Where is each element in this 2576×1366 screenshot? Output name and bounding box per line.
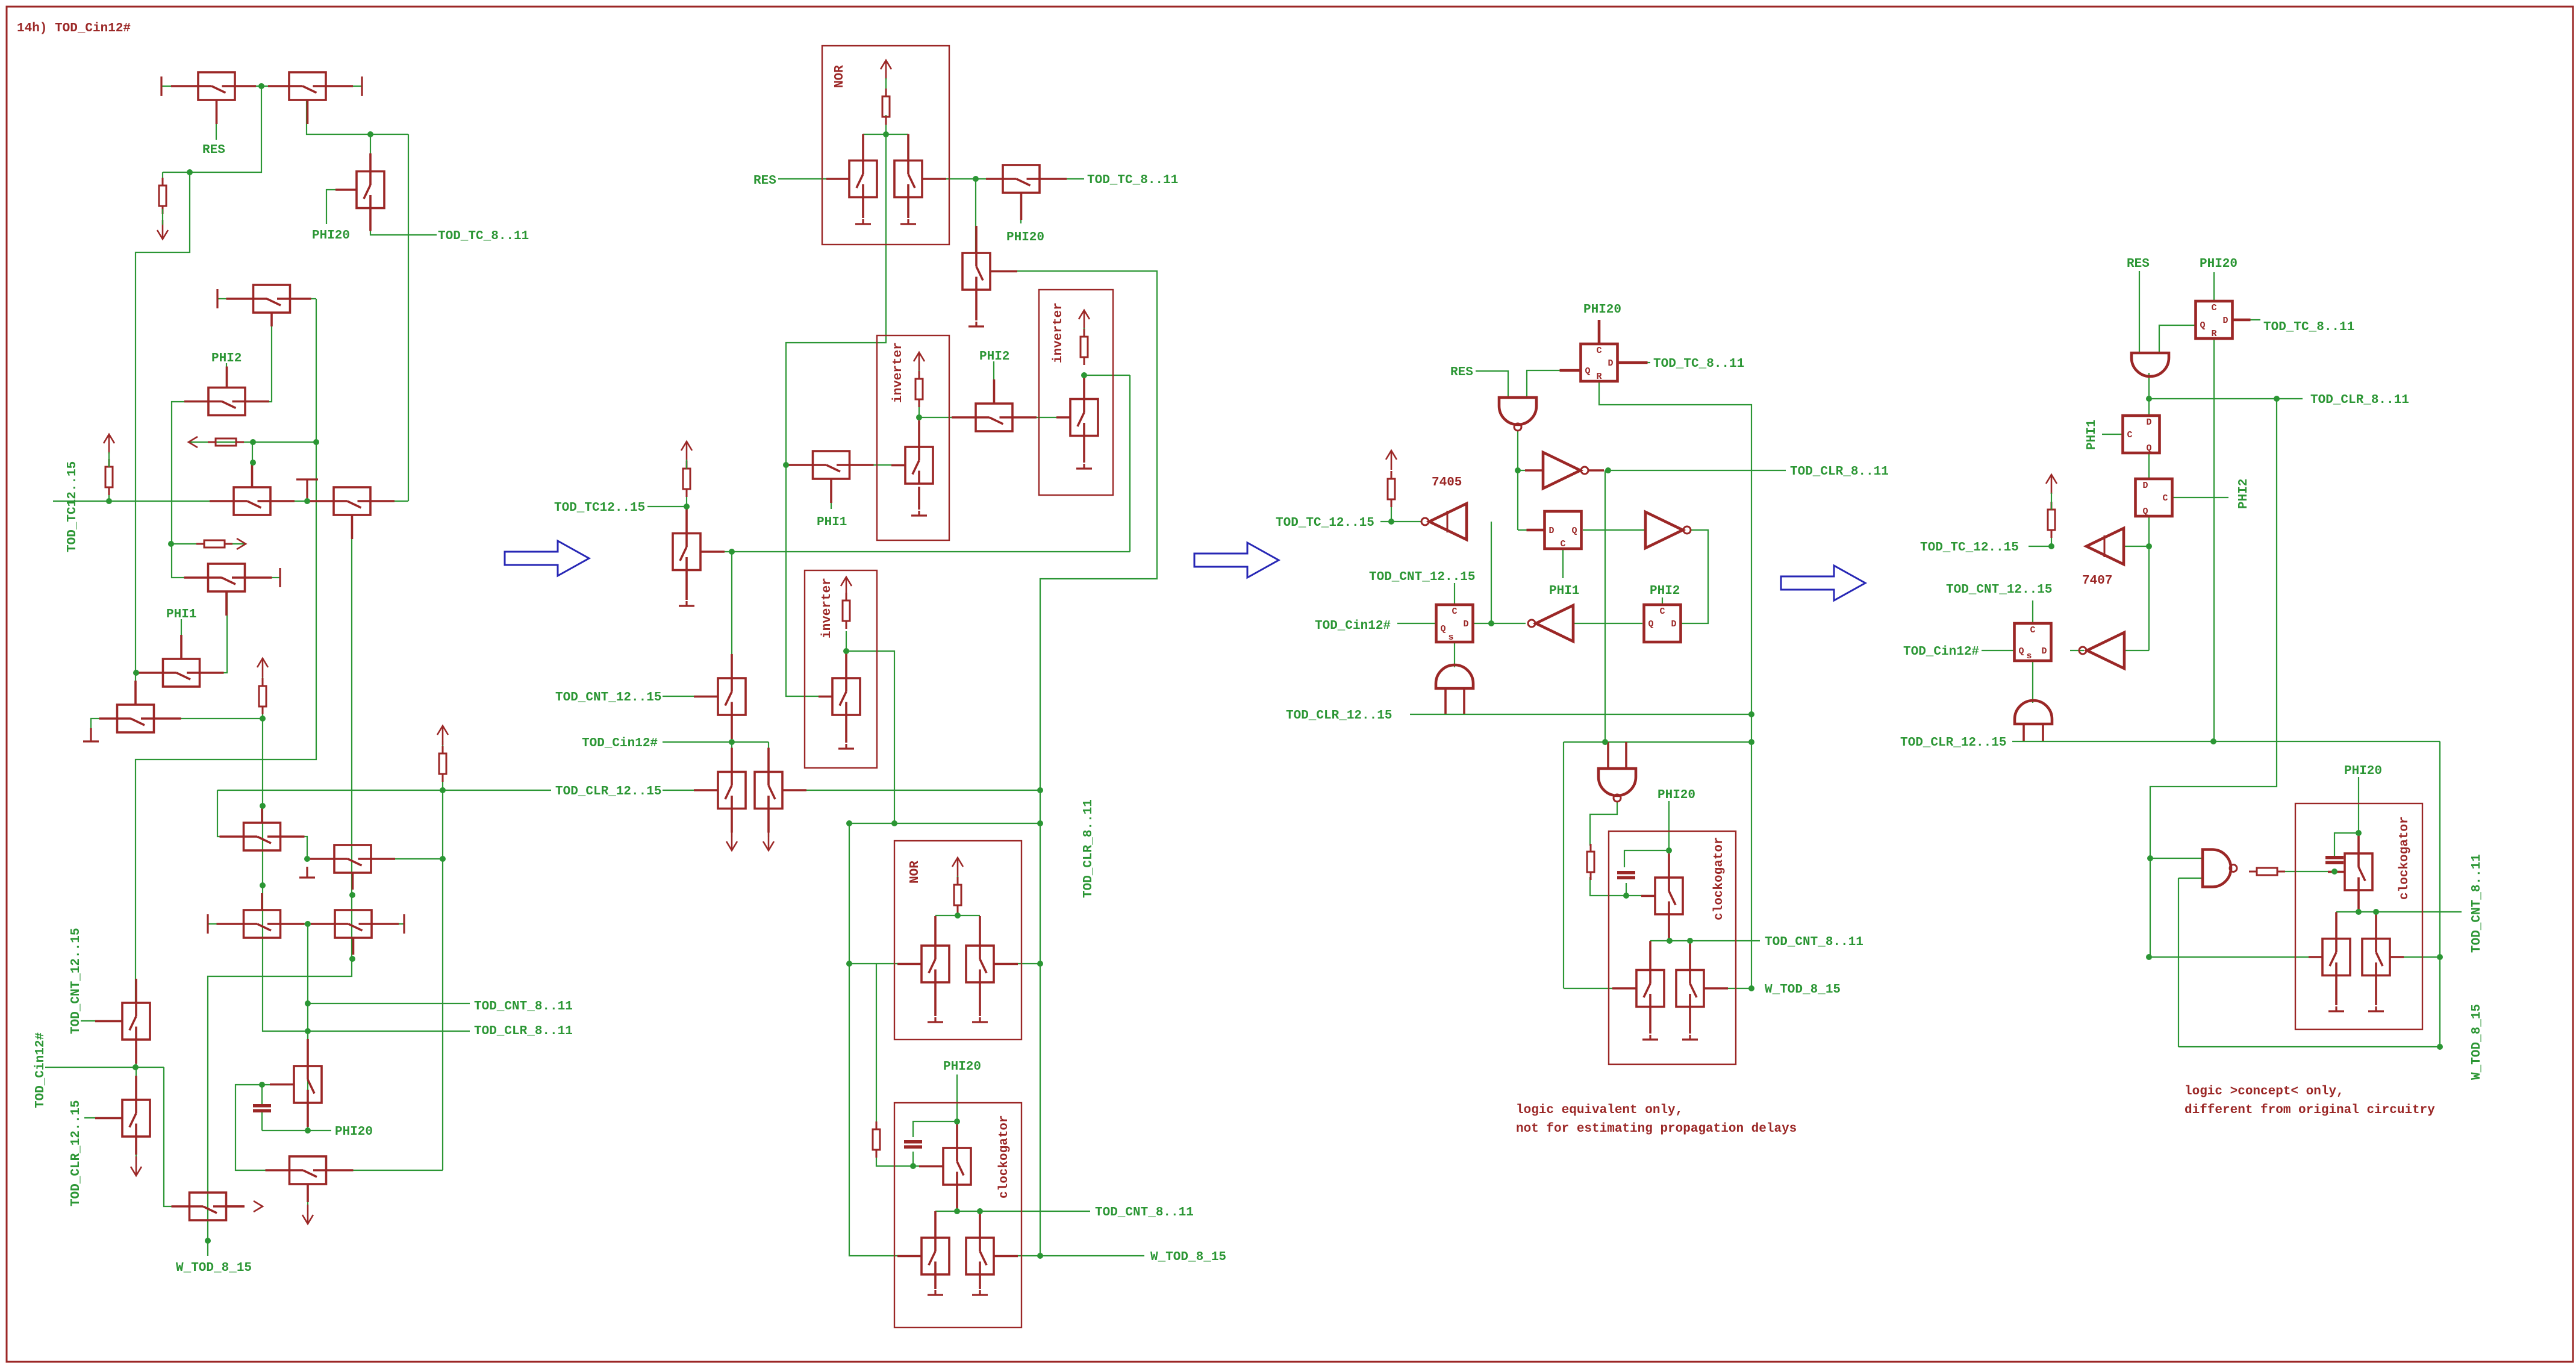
wire Q to NAND p3	[1527, 370, 1580, 398]
contact Q4	[216, 289, 218, 308]
wire Q2 gate net	[307, 100, 408, 134]
wire to TOD_TC_8..11	[1040, 178, 1084, 179]
svg-text:Q: Q	[1648, 619, 1653, 629]
svg-text:NOR: NOR	[908, 861, 922, 884]
wire arrow-res NOR	[885, 78, 887, 96]
junction	[349, 892, 355, 898]
wire arrow-res p4	[2051, 493, 2052, 510]
transistor inv3	[819, 652, 860, 715]
svg-text:PHI2: PHI2	[1650, 584, 1680, 598]
svg-text:W_TOD_8_15: W_TOD_8_15	[2470, 1004, 2484, 1080]
wire PHI1pass to inv1	[850, 464, 905, 466]
svg-text:D: D	[2222, 316, 2228, 326]
transistor Q8 (PHI1)	[139, 635, 224, 687]
transistor Q12	[310, 845, 395, 890]
wire down to A1	[731, 552, 732, 678]
wire right arrow line b	[229, 543, 246, 544]
wire Q9 out	[245, 577, 280, 578]
wire long left vertical	[136, 172, 190, 673]
wire Qm arrow-res	[686, 460, 687, 469]
wire TOD_CNT_8..11 line p2	[935, 1211, 1090, 1212]
wire TOD_CLR_8..11 p3	[1609, 470, 1786, 471]
wire to Q4	[217, 298, 253, 299]
contact right Q2	[361, 76, 363, 96]
wire cap down p3	[1626, 883, 1627, 896]
junction	[1748, 985, 1754, 991]
svg-text:14h) TOD_Cin12#: 14h) TOD_Cin12#	[17, 22, 131, 36]
svg-text:Q: Q	[1585, 366, 1590, 376]
wire W_TOD line p2	[994, 1255, 1144, 1256]
wire PHI20 to Qc3	[1668, 850, 1670, 878]
transistor Q4	[226, 285, 311, 326]
wire Cin12 to L4 Q	[1397, 623, 1436, 624]
transistor inv1	[891, 420, 933, 484]
wire node A down	[163, 86, 261, 172]
svg-text:D: D	[1608, 358, 1613, 369]
arrow up Qm	[681, 441, 692, 461]
wire CNT12 to L4 p4	[2032, 600, 2033, 624]
svg-text:7405: 7405	[1432, 476, 1462, 490]
wire Q11 right	[281, 837, 307, 859]
resistor R2	[105, 459, 113, 495]
transistor Q5 (PHI2)	[184, 367, 269, 416]
junction	[304, 856, 310, 862]
wire down to Qk	[975, 179, 976, 253]
ground NOR b	[900, 219, 916, 224]
arrow down A2	[726, 831, 737, 850]
wire inv3 out	[846, 651, 894, 823]
wire L2 Q to inv2	[1583, 529, 1644, 531]
svg-text:logic equivalent only,: logic equivalent only,	[1516, 1103, 1683, 1117]
svg-text:TOD_TC12..15: TOD_TC12..15	[554, 501, 645, 515]
inverter p4	[2079, 632, 2124, 669]
junction	[783, 462, 789, 468]
ground Q10	[83, 728, 99, 741]
svg-text:inverter: inverter	[1052, 302, 1065, 363]
junction	[349, 956, 355, 962]
wire RES to NAND p3	[1476, 371, 1508, 398]
latch L1 p4 (PHI20)	[2196, 301, 2251, 338]
junction	[2147, 855, 2153, 861]
junction	[259, 1082, 265, 1088]
wire RES down p4	[2139, 271, 2140, 353]
wire to cap p2	[913, 1121, 957, 1137]
ground lower b p3	[1682, 1035, 1698, 1040]
wire W_TOD left p3	[1564, 988, 1636, 989]
resistor R1	[159, 178, 166, 214]
transistor Q15	[270, 1039, 322, 1127]
wire 7407 in p4	[2124, 546, 2149, 547]
wire x511 trunk	[307, 924, 308, 1131]
block frame inverter 1	[877, 335, 949, 540]
junction	[305, 1028, 311, 1034]
wire res down p4	[2051, 531, 2052, 546]
junction	[2048, 543, 2054, 549]
junction	[684, 504, 690, 510]
junction	[313, 439, 319, 445]
svg-text:s: s	[1448, 632, 1453, 643]
wire TOD_CNT_12..15 entry	[663, 696, 718, 697]
svg-text:Q: Q	[1571, 526, 1577, 536]
ground lower a p4	[2328, 1006, 2344, 1011]
ground inv3	[838, 744, 854, 749]
junction	[250, 439, 256, 445]
wire NAND out down	[1517, 431, 1518, 530]
wire L3 C to PHI2 p4	[2172, 497, 2228, 498]
wire Qc2 bottom	[956, 1185, 958, 1211]
svg-text:TOD_CNT_12..15: TOD_CNT_12..15	[555, 691, 661, 705]
svg-text:D: D	[1463, 619, 1468, 629]
wire NOR2a gnd	[934, 982, 937, 1016]
wire W_TOD row left p4	[2150, 956, 2322, 958]
wire sample left arrow line	[189, 441, 316, 443]
svg-text:PHI20: PHI20	[2344, 764, 2382, 778]
junction	[2146, 396, 2152, 402]
wire arrow-R4	[442, 741, 443, 753]
transistor Q11	[220, 806, 305, 850]
wire Q16 out	[326, 1170, 443, 1171]
wire PHI2pass to inv2	[1012, 417, 1070, 418]
wire Q4 gate	[245, 313, 272, 402]
svg-text:TOD_CNT_12..15: TOD_CNT_12..15	[69, 928, 83, 1034]
wire lower b out p4	[2390, 956, 2440, 958]
arrow up R4	[437, 726, 448, 745]
wire Q5 left to Q9	[172, 402, 208, 578]
junction	[973, 176, 979, 182]
block frame NOR	[822, 46, 949, 245]
svg-text:PHI20: PHI20	[1583, 303, 1621, 317]
junction	[260, 716, 266, 722]
wire NOR res down	[885, 115, 887, 134]
svg-text:PHI20: PHI20	[1006, 231, 1044, 245]
wire TOD_CLR_12..15 gate	[84, 1117, 122, 1118]
svg-text:different from original circui: different from original circuitry	[2185, 1103, 2435, 1117]
junction	[2146, 954, 2152, 960]
wire inv3 gnd	[845, 715, 847, 743]
wire to inv1 p3	[1518, 470, 1540, 471]
wire lowa gnd p4	[2335, 976, 2337, 1005]
arrow up NOR2	[952, 858, 963, 877]
resistor p4	[2048, 502, 2055, 538]
svg-text:C: C	[2127, 430, 2132, 440]
wire W_TOD trunk	[208, 515, 352, 1241]
svg-text:TOD_CLR_12..15: TOD_CLR_12..15	[1900, 736, 2006, 750]
junction	[1602, 739, 1608, 745]
buffer 7407	[2086, 528, 2124, 564]
wire NOR2 drain bar	[935, 915, 980, 916]
svg-text:TOD_CLR_12..15: TOD_CLR_12..15	[555, 785, 661, 799]
wire Q5 gate to PHI2	[226, 363, 227, 388]
junction	[2356, 909, 2362, 915]
junction	[2146, 543, 2152, 549]
svg-text:TOD_TC_8..11: TOD_TC_8..11	[1087, 173, 1178, 187]
svg-text:RES: RES	[202, 143, 225, 157]
svg-text:D: D	[2041, 646, 2047, 656]
junction	[954, 1118, 960, 1124]
wire L2 C to PHI1	[1562, 549, 1564, 578]
wire Q15 top	[307, 1031, 308, 1066]
svg-text:7407: 7407	[2082, 574, 2112, 588]
transistor lower a p2	[897, 1211, 949, 1274]
wire to Q6 gate	[252, 442, 253, 487]
svg-text:Q: Q	[2142, 507, 2148, 517]
transistor Q9	[184, 564, 272, 616]
wire PHI20 to L1 p4	[2213, 272, 2215, 301]
wire inv3 out	[1491, 623, 1526, 624]
wire Qc4 bottom p4	[2358, 890, 2359, 912]
NAND gate p3 bottom	[1598, 742, 1636, 802]
svg-text:TOD_TC_8..11: TOD_TC_8..11	[438, 229, 529, 243]
wire TOD_TC_12..15 entry p3	[1380, 521, 1391, 522]
wire TOD_TC12..15 entry	[647, 506, 687, 507]
svg-text:C: C	[1659, 607, 1665, 617]
wire TOD_TC12..15 line	[53, 501, 234, 502]
panel separator arrow 1	[505, 541, 589, 576]
wire nand2 feed line	[1564, 741, 1751, 743]
ground NOR a	[855, 219, 871, 224]
wire R2-arrow	[108, 452, 110, 467]
svg-text:Q: Q	[2018, 646, 2024, 656]
wire TOD_CLR trunk y916	[732, 551, 1130, 552]
wire Q19 down	[136, 1137, 137, 1156]
wire to B2	[768, 742, 769, 772]
junction	[260, 882, 266, 888]
transistor lower a p4	[2309, 912, 2350, 976]
wire res to Qc4 p4	[2279, 871, 2340, 872]
svg-text:R: R	[1596, 372, 1601, 382]
svg-text:clockogator: clockogator	[2398, 816, 2412, 900]
wire to lower b p4	[2375, 912, 2377, 938]
wire R3 down	[262, 706, 263, 719]
latch L2 p4 (PHI1)	[2123, 416, 2160, 453]
svg-text:clockogator: clockogator	[997, 1115, 1011, 1199]
junction	[133, 1064, 139, 1070]
wire res to Qc3 gate	[1590, 877, 1655, 896]
junction	[1666, 847, 1672, 853]
junction	[1623, 893, 1629, 899]
junction	[1488, 620, 1494, 626]
wire L4 S to AND	[1454, 642, 1455, 667]
junction	[955, 912, 961, 918]
wire to Q11 left	[217, 790, 243, 837]
transistor A1	[694, 654, 746, 739]
wire to L4 D p3	[1473, 623, 1491, 624]
transistor pass PHI1	[789, 451, 874, 503]
wire CLR8 feedback p4	[2150, 399, 2277, 957]
transistor clockogator p4	[2328, 835, 2372, 912]
arrow down B2	[763, 831, 774, 850]
svg-text:inverter: inverter	[891, 342, 905, 403]
svg-text:TOD_Cin12#: TOD_Cin12#	[582, 737, 658, 750]
svg-text:TOD_Cin12#: TOD_Cin12#	[1903, 645, 1979, 659]
transistor NOR a	[826, 134, 877, 198]
svg-text:PHI2: PHI2	[979, 350, 1009, 364]
contact Q13	[207, 914, 208, 934]
junction	[2437, 1044, 2443, 1050]
latch L1 p3 (PHI20)	[1560, 320, 1648, 381]
junction	[1748, 739, 1754, 745]
junction	[1687, 938, 1693, 944]
wire PHI20 down p3	[1668, 801, 1670, 850]
wire L1 Q to AND p4	[2159, 325, 2195, 353]
wire L2 Q to L3 p4	[2148, 453, 2150, 479]
resistor NOR2	[954, 877, 961, 913]
transistor lower a p3	[1612, 941, 1664, 1007]
block frame clockogator	[894, 1103, 1021, 1327]
wire to L2 D	[1518, 529, 1544, 531]
wire inv2 arrow-res	[1084, 328, 1085, 334]
transistor Q10	[99, 681, 181, 732]
wire TOD_CNT_8..11 line p3	[1650, 940, 1760, 941]
wire R2 to line	[108, 488, 110, 501]
inverter p3 c	[1528, 605, 1573, 641]
wire x525 trunk	[136, 299, 316, 1003]
wire to lower b p3	[1689, 941, 1691, 970]
junction	[106, 498, 112, 504]
wire NOR2 in2	[994, 963, 1040, 964]
wire to lower T1	[935, 1211, 936, 1238]
svg-text:PHI20: PHI20	[312, 229, 350, 243]
svg-text:TOD_CLR_12..15: TOD_CLR_12..15	[69, 1100, 83, 1206]
block frame clockogator p4	[2295, 803, 2422, 1029]
wire W_TOD label stub	[207, 1241, 208, 1256]
junction	[2274, 396, 2280, 402]
inverter p3 a	[1525, 452, 1604, 488]
transistor Q7	[310, 487, 395, 539]
contact T Q6-Q7	[296, 479, 318, 501]
wire Q14 out	[372, 923, 404, 925]
svg-text:PHI20: PHI20	[1658, 788, 1695, 802]
buffer 7405	[1421, 504, 1467, 540]
wire TOD_CLR_8..11 line p4	[2149, 398, 2303, 399]
junction	[729, 739, 735, 745]
wire W_TOD line p4	[2178, 1046, 2440, 1047]
wire inv1 res-node	[918, 399, 920, 417]
resistor NOR	[882, 89, 890, 125]
wire TOD_CNT_8..11 line p4	[2336, 911, 2462, 912]
wire Cin to Q17	[164, 1067, 189, 1206]
svg-text:PHI20: PHI20	[2200, 257, 2238, 271]
arrow up p3 TC	[1386, 451, 1397, 470]
svg-text:TOD_TC_8..11: TOD_TC_8..11	[1653, 357, 1744, 371]
arrow up inv2	[1079, 310, 1090, 329]
svg-text:TOD_TC12..15: TOD_TC12..15	[66, 461, 80, 552]
svg-text:NOR: NOR	[833, 65, 847, 88]
svg-text:PHI2: PHI2	[211, 352, 242, 366]
wire Qk gate trunk	[990, 271, 1157, 1256]
junction	[2437, 954, 2443, 960]
svg-text:RES: RES	[753, 174, 776, 188]
wire R to Qc2 gate	[876, 1149, 943, 1166]
svg-text:not for estimating propagation: not for estimating propagation delays	[1516, 1122, 1797, 1136]
wire Qc3 bottom	[1668, 914, 1670, 941]
junction	[440, 856, 446, 862]
svg-text:PHI1: PHI1	[817, 516, 847, 529]
wire Q4 out	[290, 298, 316, 299]
junction	[2210, 738, 2216, 744]
wire R below	[686, 490, 687, 507]
wire B2 down	[768, 809, 769, 837]
transistor lower b p2	[966, 1211, 1018, 1274]
wire PHI20 down p2	[956, 1074, 958, 1121]
wire to R clockogator	[876, 964, 877, 1130]
wire PHI20 to Qc2	[956, 1121, 958, 1148]
junction	[168, 541, 174, 547]
wire Q6-Q7	[270, 501, 334, 502]
wire PHI20 line p1	[262, 1130, 331, 1131]
wire cap bottom	[261, 1111, 263, 1131]
panel separator arrow 2	[1194, 543, 1279, 578]
wire inv2 gnd	[1083, 436, 1085, 463]
svg-text:TOD_CLR_8..11: TOD_CLR_8..11	[2310, 393, 2409, 407]
wire Q13-Q14	[281, 923, 335, 925]
wire W_TOD right p3	[1704, 988, 1750, 989]
transistor Q19	[95, 1076, 150, 1155]
svg-text:W_TOD_8_15: W_TOD_8_15	[176, 1261, 252, 1275]
wire NAND in1 p4	[2150, 858, 2203, 859]
svg-text:inverter: inverter	[820, 578, 834, 638]
svg-text:RES: RES	[1450, 366, 1473, 379]
wire CNT12 to L4 C	[1454, 583, 1455, 605]
arrow left sample	[189, 437, 198, 448]
svg-text:W_TOD_8_15: W_TOD_8_15	[1150, 1250, 1226, 1264]
wire to lower T2	[979, 1211, 981, 1238]
transistor lower b p4	[2362, 912, 2404, 976]
wire inv2 node down	[1084, 375, 1085, 398]
wire Q12 out	[371, 858, 443, 859]
transistor Q18	[95, 979, 150, 1064]
NAND gate p4	[2203, 850, 2237, 887]
transistor pass PHI2	[952, 379, 1037, 431]
resistor p4 clk	[2249, 868, 2285, 875]
wire x436 through Q11	[262, 719, 263, 885]
junction	[729, 549, 735, 555]
wire L1 R loop x2908	[1599, 381, 1751, 988]
wire PHI20 down p4	[2358, 777, 2359, 853]
wire Q1 gate to RES	[216, 100, 217, 140]
arrow up p4	[2046, 475, 2057, 494]
capacitor C1	[253, 1104, 271, 1112]
svg-text:TOD_TC_12..15: TOD_TC_12..15	[1920, 541, 2019, 555]
wire NOR b gnd	[907, 198, 909, 218]
wire to Q12	[307, 858, 334, 859]
junction	[846, 961, 852, 967]
ground NOR2 a	[928, 1017, 943, 1022]
wire inv2 out down	[1129, 375, 1131, 552]
wire cap down p2	[912, 1152, 914, 1166]
arrow up R2	[104, 434, 114, 454]
wire inv1 out to PHI2 pass	[919, 417, 976, 418]
junction	[1388, 519, 1394, 525]
junction	[1037, 820, 1043, 826]
wire inv3 arrow-res	[846, 595, 847, 600]
transistor Q13	[217, 893, 305, 938]
svg-text:clockogator: clockogator	[1712, 837, 1726, 920]
wire to cap p3	[1624, 850, 1669, 867]
svg-text:Q: Q	[2146, 443, 2151, 454]
svg-text:D: D	[1671, 619, 1676, 629]
wire PHI2 gate p2	[993, 361, 994, 404]
wire to lower a p3	[1650, 941, 1651, 970]
wire NOR2 res down	[957, 905, 958, 915]
svg-text:TOD_CNT_12..15: TOD_CNT_12..15	[1946, 583, 2052, 597]
transistor clockogator p2	[919, 1124, 971, 1209]
junction	[916, 414, 922, 420]
transistor NOR b	[894, 134, 946, 198]
wire PHI1 gate	[181, 619, 182, 660]
resistor clockogator p2	[873, 1121, 880, 1158]
arrow up inv1	[914, 352, 925, 372]
